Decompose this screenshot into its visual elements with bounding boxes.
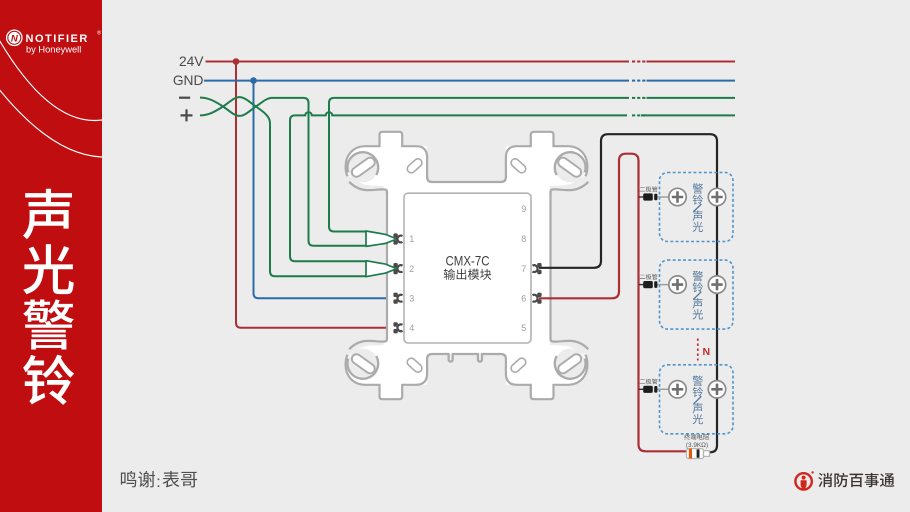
svg-text:5: 5 [521, 323, 526, 333]
label 二极管 (D3) [640, 379, 658, 385]
backplate bottom valley with tabs [427, 354, 506, 374]
svg-text:1: 1 [409, 234, 414, 244]
terminal + unit 1 [669, 188, 686, 205]
wire twisted pair plus (to pin 2) [200, 97, 367, 276]
svg-text:6: 6 [521, 293, 526, 303]
terminal screw pin 6 [533, 293, 542, 304]
NOTIFIER logo [7, 30, 101, 55]
svg-text:4: 4 [409, 323, 414, 333]
module CMX-7C backplate (mounting bracket) [387, 182, 551, 354]
corner wing bottom-left [344, 335, 427, 399]
backplate right edge [549, 192, 551, 339]
backplate left edge [386, 192, 388, 339]
corner wing top-left [344, 132, 427, 196]
sidebar title 声光警铃 [23, 189, 74, 405]
repeat marker N [697, 339, 699, 361]
wire 24V rail [206, 61, 736, 63]
svg-text:by Honeywell: by Honeywell [26, 45, 81, 55]
label 输出模块 [444, 269, 492, 280]
bell/strobe unit 3 box [660, 365, 734, 434]
diode D3 [639, 388, 645, 390]
terminal + unit 2 [669, 276, 686, 293]
terminal screw pin 1 [393, 233, 397, 237]
terminal screw pin 3 [393, 293, 397, 297]
label plus [181, 109, 193, 121]
terminal screw pin 4 [393, 322, 397, 326]
credit text 鸣谢:表哥 [121, 471, 197, 491]
backplate top valley [427, 158, 506, 183]
crimp terminal pin 2 [366, 261, 397, 277]
label 二极管 (D2) [640, 274, 658, 280]
label 终端电阻 (3.9KΩ) [684, 434, 709, 440]
terminal screw pin 2 [393, 263, 397, 267]
label minus [179, 97, 190, 99]
terminal + unit 3 [669, 381, 686, 398]
label 警铃/声光 unit 2 [693, 271, 704, 320]
label 警铃/声光 unit 3 [693, 376, 704, 425]
wire twisted pair minus (to pin 1) [200, 98, 367, 246]
backplate wing hooks (lips) [349, 182, 387, 194]
svg-text:GND: GND [173, 73, 204, 88]
wire NAC supply rail from pin 1 [329, 98, 735, 232]
sidebar brand panel [0, 0, 102, 512]
node GND junction [250, 77, 257, 84]
diode D1 [639, 196, 645, 198]
svg-text:24V: 24V [179, 54, 204, 69]
wire GND drop to pin 3 [254, 81, 397, 299]
terminal - unit 2 [708, 276, 725, 293]
terminal resistor 3.9K [687, 449, 704, 459]
label 二极管 (D1) [640, 186, 658, 192]
terminal screw pin 7 [533, 263, 542, 274]
svg-text:7: 7 [521, 264, 526, 274]
wire pin 6 to NAC bus (red) [539, 154, 687, 452]
terminal - unit 1 [708, 188, 725, 205]
bell/strobe unit 2 box [660, 260, 734, 329]
corner wing bottom-right [506, 335, 589, 399]
svg-text:3: 3 [409, 293, 414, 303]
svg-text:8: 8 [521, 234, 526, 244]
bell/strobe unit 1 box [660, 173, 734, 242]
wire pin 7 to NAC bus (black) [539, 134, 717, 452]
svg-text:N: N [11, 33, 19, 44]
svg-text:2: 2 [409, 264, 414, 274]
wire GND rail [204, 80, 735, 82]
svg-text:CMX-7C: CMX-7C [446, 252, 490, 268]
wire NAC return rail from pin 2 (with hops) [290, 112, 735, 261]
svg-text:9: 9 [521, 204, 526, 214]
node 24V junction [233, 58, 240, 65]
terminal - unit 3 [708, 381, 725, 398]
svg-text:(3.9KΩ): (3.9KΩ) [686, 442, 708, 449]
crimp terminal pin 1 [366, 231, 397, 246]
label 警铃/声光 unit 1 [693, 183, 704, 232]
svg-text:®: ® [97, 30, 101, 37]
wire 24V drop to pin 4 [236, 62, 397, 328]
svg-text::: : [156, 474, 160, 491]
corner wing top-right [506, 132, 589, 196]
diode D2 [639, 284, 645, 286]
module body CMX-7C [404, 193, 531, 343]
svg-text:NOTIFIER: NOTIFIER [26, 33, 89, 45]
svg-text:N: N [703, 346, 711, 358]
footer logo 消防百事通 [795, 471, 894, 490]
